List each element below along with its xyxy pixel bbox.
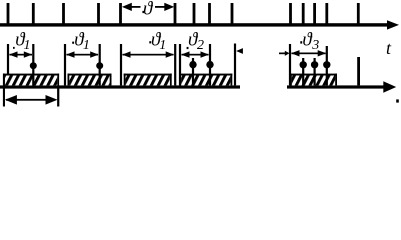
svg-text:3: 3 bbox=[311, 38, 319, 53]
svg-text:1: 1 bbox=[83, 38, 90, 53]
svg-text:t: t bbox=[386, 38, 392, 58]
svg-text:1: 1 bbox=[24, 38, 31, 53]
svg-text:ϑ: ϑ bbox=[143, 0, 154, 19]
svg-text:2: 2 bbox=[197, 38, 204, 53]
svg-text:1: 1 bbox=[159, 38, 166, 53]
